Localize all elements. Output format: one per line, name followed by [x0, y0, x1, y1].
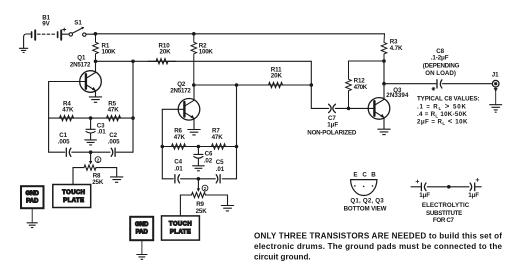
svg-text:.1-2μF: .1-2μF [431, 54, 449, 61]
wire collector row to R11 [194, 84, 311, 86]
ground (C3) [85, 140, 97, 145]
transistor Q1 [80, 71, 102, 93]
svg-text:.01: .01 [216, 166, 225, 173]
ground (gnd pad 2) [137, 255, 147, 260]
svg-text:25K: 25K [196, 208, 208, 215]
battery B1 [32, 28, 66, 40]
ground (Q2 emitter) [188, 130, 200, 135]
wire R9 right to ground [206, 195, 228, 205]
capacitor C7 [329, 104, 336, 112]
ground (J1) [490, 105, 502, 113]
svg-text:2: 2 [97, 158, 100, 163]
wire Q3 collector [383, 84, 385, 100]
R6/R7 rail [162, 146, 236, 148]
svg-text:47K: 47K [174, 134, 186, 141]
wire Q1 emitter [95, 91, 97, 97]
svg-text:B: B [371, 172, 376, 179]
svg-text:ONLY THREE TRANSISTORS ARE NEE: ONLY THREE TRANSISTORS ARE NEEDED to bui… [254, 231, 502, 240]
gnd pad 2 [130, 217, 153, 240]
transistor Q3 [368, 98, 390, 120]
wiper wire to R8 [89, 152, 92, 164]
switch S1 [69, 27, 86, 36]
transistor bottom view symbol [351, 180, 377, 196]
wire C7 to Q3 base [335, 107, 374, 109]
svg-text:1μF: 1μF [468, 192, 479, 199]
svg-text:C: C [362, 172, 367, 179]
svg-text:E: E [353, 172, 357, 179]
wire battery to switch [62, 33, 69, 35]
second rail (Q1/Q2 collector row) [96, 60, 312, 62]
top supply rail [95, 33, 384, 35]
gnd pad 1 [21, 186, 44, 208]
wire gnd pad 2 to ground [141, 240, 143, 254]
capacitor C6 [194, 147, 203, 166]
resistor R12 [346, 61, 352, 108]
node (R2 top) [192, 32, 196, 36]
svg-text:S1: S1 [74, 20, 82, 27]
node (Q2 base drop) [161, 145, 165, 149]
wire Q1 base to left vertical [49, 82, 86, 119]
node (R3/R12) [382, 59, 386, 63]
wire Q1 collector [95, 61, 97, 72]
svg-text:PLATE: PLATE [63, 198, 84, 204]
svg-text:circuit ground.: circuit ground. [254, 253, 311, 262]
node (R5 right) [131, 116, 135, 120]
capacitor C3 [86, 118, 95, 140]
electrolytic substitute drawing [411, 178, 481, 190]
capacitor C1 [66, 148, 71, 156]
svg-text:100K: 100K [102, 48, 117, 55]
resistor R10 [148, 59, 176, 64]
ground (Q1 emitter) [89, 97, 101, 102]
wire Q3 emitter [383, 118, 385, 129]
svg-text:TOUCH: TOUCH [62, 190, 85, 196]
svg-text:(DEPENDING: (DEPENDING [423, 62, 460, 69]
svg-text:47K: 47K [212, 134, 224, 141]
wire C8 to J1 [442, 83, 492, 85]
svg-text:2N5172: 2N5172 [170, 88, 191, 95]
resistor R11 [269, 82, 283, 87]
node (C1/C2/R8) [89, 150, 93, 154]
node (x236 top) [235, 83, 239, 87]
resistor R3 [381, 34, 387, 61]
node (R7 right) [235, 145, 239, 149]
wire R12 top to R3 node [349, 60, 385, 62]
node (C3 top) [89, 116, 93, 120]
capacitor C2 [111, 148, 115, 156]
touch plate 2 [162, 216, 200, 240]
wire Q2 collector [193, 85, 195, 100]
svg-text:1μF: 1μF [419, 192, 430, 199]
svg-text:.02: .02 [204, 157, 213, 164]
svg-text:PAD: PAD [136, 230, 149, 236]
touch plate 1 [53, 185, 91, 208]
svg-text:.4 = RL 10K-50K: .4 = RL 10K-50K [417, 111, 467, 119]
svg-text:.01: .01 [97, 128, 106, 135]
svg-text:4.7K: 4.7K [390, 45, 403, 52]
wire R9 left to touch plate 2 [180, 195, 191, 216]
svg-text:47K: 47K [108, 106, 120, 113]
vertical wire x=236.5 [236, 85, 238, 179]
node (R2 bottom / Q2 collector) [192, 83, 196, 87]
node (C6 top) [197, 145, 201, 149]
svg-text:Q1, Q2, Q3: Q1, Q2, Q3 [350, 197, 384, 204]
svg-text:ELECTROLYTIC: ELECTROLYTIC [422, 202, 470, 209]
svg-text:470K: 470K [354, 84, 368, 91]
ground (gnd pad 1) [27, 223, 37, 228]
svg-text:20K: 20K [271, 73, 283, 80]
svg-text:47K: 47K [62, 106, 74, 113]
ground (Q3 emitter) [378, 129, 390, 134]
node (output / Q3 collector) [382, 82, 386, 86]
svg-text:GND: GND [26, 191, 40, 197]
node (R1 bottom / Q1 collector) [94, 60, 98, 64]
wire rail2 down to C7 row [311, 61, 328, 108]
C1/C2 bottom rail [49, 118, 133, 152]
resistor R5 [107, 116, 121, 121]
svg-text:2N5172: 2N5172 [70, 61, 91, 68]
wire gnd pad 1 to ground [31, 209, 33, 223]
ground (battery) [19, 34, 31, 53]
resistor R1 [93, 34, 99, 62]
svg-text:.01: .01 [174, 166, 183, 173]
svg-text:.005: .005 [108, 139, 120, 146]
node (C7/R12/Q3 base) [347, 107, 351, 111]
svg-text:.005: .005 [58, 139, 70, 146]
svg-text:J1: J1 [492, 71, 499, 78]
svg-text:20K: 20K [160, 48, 172, 55]
resistor R2 [191, 34, 197, 85]
C4/C5 bottom rail [162, 147, 236, 179]
ground (R9) [221, 206, 233, 211]
svg-text:GND: GND [135, 222, 149, 228]
resistor R7 [212, 144, 226, 149]
svg-text:FOR C7: FOR C7 [433, 217, 455, 224]
svg-text:SUBSTITUTE: SUBSTITUTE [426, 210, 462, 217]
svg-text:BOTTOM VIEW: BOTTOM VIEW [344, 206, 387, 213]
vertical wire x=133 [132, 61, 134, 152]
svg-text:PLATE: PLATE [170, 230, 191, 236]
capacitor C5 [216, 175, 220, 183]
jack J1 [492, 80, 499, 104]
circled 2 (ch2) [202, 185, 208, 191]
svg-text:1μF: 1μF [327, 121, 338, 128]
svg-text:NON-POLARIZED: NON-POLARIZED [307, 130, 357, 137]
svg-text:2N3394: 2N3394 [386, 92, 409, 99]
wire R8 left to touch plate [73, 168, 84, 185]
svg-text:PAD: PAD [26, 199, 39, 205]
node (rail2/x133) [131, 60, 135, 64]
svg-text:25K: 25K [92, 179, 104, 186]
wire R3 node to output node [383, 61, 385, 84]
wire Q2 emitter [193, 118, 195, 129]
resistor R6 [172, 144, 186, 149]
svg-text:9V: 9V [42, 20, 50, 27]
ground (R8) [111, 177, 123, 182]
resistor R4 [60, 116, 74, 121]
wire R8 right to ground [96, 168, 117, 177]
svg-text:electronic drums. The ground p: electronic drums. The ground pads must b… [254, 242, 502, 251]
svg-text:ON LOAD): ON LOAD) [425, 70, 456, 77]
svg-text:.1 = RL > 50K: .1 = RL > 50K [417, 102, 467, 112]
capacitor C8 [432, 80, 442, 91]
svg-text:100K: 100K [199, 48, 214, 55]
node (rail2 corner / R11 right) [310, 83, 314, 87]
circled 2 (ch1) [95, 157, 101, 163]
node (battery/R1 junction) [94, 32, 98, 36]
svg-text:2: 2 [204, 186, 207, 191]
wire Q2 base to left vertical [162, 109, 184, 146]
R4/R5 rail [49, 117, 133, 119]
node (C4/C5/R9) [197, 177, 201, 181]
wiper wire to R9 [197, 179, 200, 192]
svg-text:TOUCH: TOUCH [169, 222, 192, 228]
potentiometer R8 [84, 165, 96, 170]
capacitor C4 [175, 175, 180, 183]
wire switch to node [86, 33, 95, 35]
potentiometer R9 [192, 192, 206, 197]
transistor Q2 [178, 99, 200, 121]
ground (C6) [193, 166, 205, 171]
output wire to C8 [384, 83, 436, 85]
